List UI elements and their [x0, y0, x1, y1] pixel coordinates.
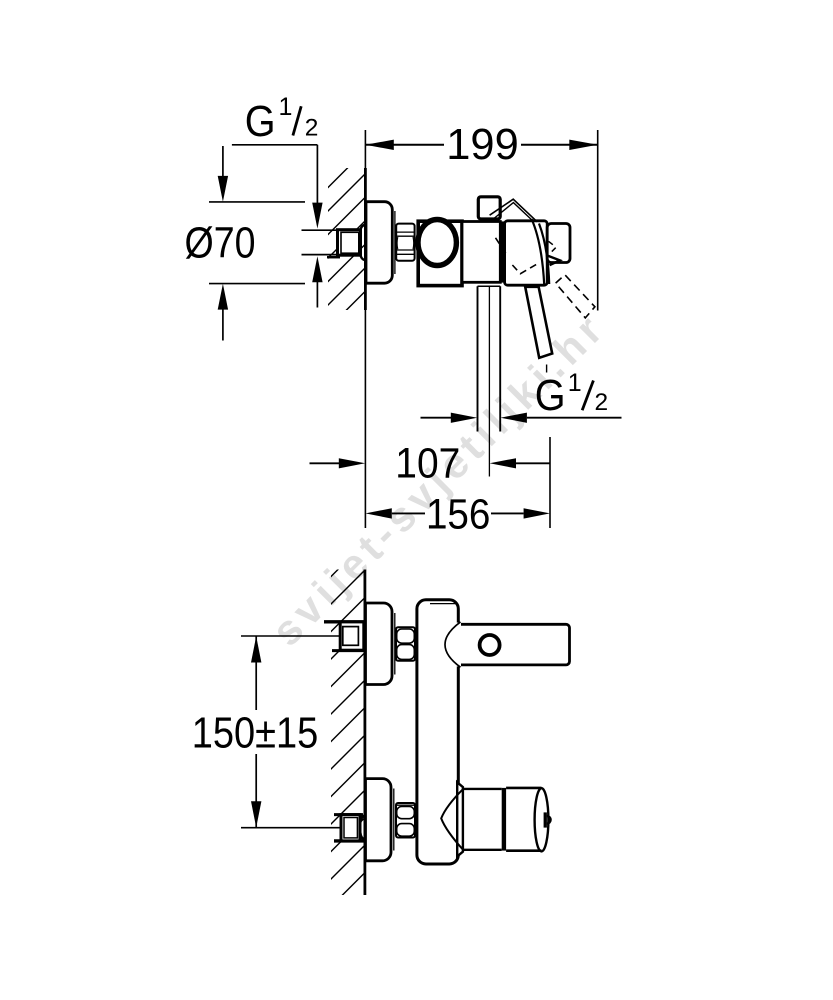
- lever pin: [525, 287, 552, 358]
- body top chamfer line: [430, 603, 457, 605]
- dimension Ø70 top extension line: [209, 201, 305, 203]
- inlet pipe behind wall: [302, 229, 337, 231]
- svg-text:107: 107: [395, 441, 460, 488]
- handle cap block C: [505, 221, 548, 285]
- dimension 156 right extension line: [549, 437, 551, 528]
- dimension 150±15 up arrowhead: [251, 636, 261, 662]
- lever blade curves: [532, 219, 545, 285]
- dimension Ø70 up arrowhead: [218, 284, 228, 310]
- dimension 199 right extension line: [597, 130, 599, 311]
- hex nut (top view): [396, 224, 414, 261]
- dimension 107 right line: [516, 462, 550, 464]
- holder hole: [480, 635, 500, 655]
- G1/2 up arrowhead: [312, 256, 322, 282]
- inlet square union: [338, 230, 361, 256]
- G1/2 leader horizontal line: [232, 144, 318, 146]
- spout boss: [457, 782, 463, 856]
- spout cone: [441, 788, 464, 850]
- dimension 150±15 vertical line: [255, 636, 257, 710]
- lower hex nut: [396, 803, 415, 838]
- dimension G 1/2 (second) right-pointing arrowhead: [451, 413, 477, 423]
- svg-text:1: 1: [568, 369, 582, 397]
- svg-text:G: G: [535, 372, 566, 420]
- G1/2 down arrowhead: [312, 203, 322, 229]
- lower wall flange: [366, 779, 392, 861]
- dimension 107 left line: [310, 462, 340, 464]
- dimension 199 line: [365, 144, 444, 146]
- aerator nub: [544, 812, 547, 827]
- svg-text:150±15: 150±15: [192, 710, 319, 758]
- svg-text:2: 2: [595, 389, 609, 416]
- dimension 156 right arrowhead: [524, 508, 550, 518]
- label G 1/2 (first): fraction slash: [293, 106, 301, 135]
- dimension 150±15 down arrowhead: [251, 801, 261, 827]
- label G 1/2 (second): fraction slash: [582, 381, 593, 411]
- ghost lever pin dashed: [556, 275, 595, 318]
- dimension G 1/2 (second) left line: [421, 417, 452, 419]
- dimension 107 left arrowhead (at wall): [339, 458, 365, 468]
- spout cylinder 1: [463, 788, 502, 790]
- wall line (lower view): [363, 570, 366, 896]
- dimension G 1/2 (second) right line: [527, 417, 622, 419]
- spout ring: [502, 788, 506, 851]
- svg-text:199: 199: [446, 121, 519, 169]
- ball joint: [418, 220, 456, 266]
- lever centerline stub: [546, 365, 548, 373]
- faucet body bar: [417, 600, 458, 864]
- wall hatching (top view): [305, 70, 375, 399]
- body block A: [418, 221, 462, 285]
- svg-text:2: 2: [305, 114, 319, 141]
- lower supply circle behind square: [360, 815, 365, 822]
- joint dark band: [500, 221, 504, 282]
- G1/2 leader vertical line: [316, 145, 318, 203]
- pipe centerline: [488, 287, 490, 477]
- svg-text:156: 156: [426, 491, 491, 538]
- wall hatching (lower view): [305, 505, 375, 960]
- dimension 199 right arrowhead: [569, 140, 597, 150]
- shower holder arm: [452, 623, 463, 667]
- wall flange (top view): [366, 202, 392, 284]
- top outlet square: [478, 197, 500, 219]
- union hook arcs at wall: [360, 225, 365, 235]
- dimension 156 line: [392, 512, 425, 514]
- aerator housing: [506, 787, 541, 790]
- dimension 156 left arrowhead: [365, 508, 391, 518]
- lower supply square: [334, 813, 363, 816]
- dimension G 1/2 (second) left-pointing arrowhead: [501, 413, 527, 423]
- shower pipe down: [478, 285, 501, 287]
- dimension 150±15 bottom extension line: [241, 827, 340, 829]
- ghost beak dashes: [549, 241, 556, 253]
- lever boss D: [547, 224, 570, 263]
- svg-text:Ø70: Ø70: [185, 220, 256, 268]
- upper supply square: [324, 620, 365, 623]
- lever beak: [547, 255, 560, 265]
- G1/2 lower leader tail: [316, 281, 318, 308]
- dimension Ø70 down arrowhead: [218, 176, 228, 202]
- dimension 199 left arrowhead: [365, 140, 393, 150]
- svg-text:G: G: [245, 98, 276, 146]
- ghost cap dashed outline: [496, 238, 538, 274]
- svg-text:1: 1: [279, 93, 293, 121]
- upper supply circle behind square: [361, 623, 366, 633]
- upper wall flange: [366, 603, 393, 685]
- ghost blade thin lines: [490, 199, 538, 222]
- dimension Ø70 bottom extension line: [209, 283, 305, 285]
- wall line (top view, also 199 left extension): [364, 130, 366, 168]
- upper hex nut: [396, 627, 415, 661]
- body block B: [462, 222, 500, 283]
- dimension Ø70 lower arrow tail: [222, 310, 224, 341]
- dimension Ø70 upper arrow tail: [222, 146, 224, 177]
- dimension 150±15 top extension line: [241, 635, 340, 637]
- dimension 107 right arrowhead (at pipe axis): [490, 458, 516, 468]
